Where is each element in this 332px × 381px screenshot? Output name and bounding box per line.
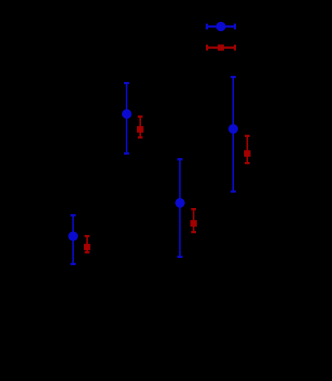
red errorbar point 3 bbox=[190, 209, 197, 232]
blue errorbar point 4 bbox=[228, 77, 238, 192]
blue errorbar point 1 bbox=[68, 215, 78, 264]
red errorbar point 1 bbox=[84, 236, 91, 252]
legend red errorbar entry bbox=[207, 45, 235, 51]
red errorbar point 4 bbox=[244, 136, 251, 163]
legend blue errorbar entry bbox=[207, 22, 235, 32]
blue errorbar point 2 bbox=[122, 83, 132, 153]
red errorbar point 2 bbox=[137, 117, 144, 138]
blue errorbar point 3 bbox=[175, 159, 185, 256]
